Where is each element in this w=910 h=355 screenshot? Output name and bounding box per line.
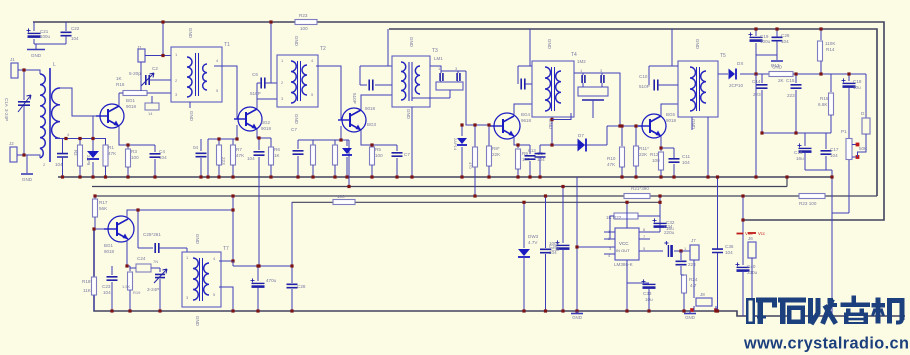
wire LM1 pin1 xyxy=(440,71,442,73)
svg-text:BG3: BG3 xyxy=(367,122,377,127)
wire BG2 bias line xyxy=(208,138,237,140)
core of antenna coil L1 xyxy=(49,68,51,162)
wire C25 left lead xyxy=(138,247,153,249)
junction R9-line xyxy=(516,143,519,146)
wire C16-C17 gnd link xyxy=(805,169,832,171)
wire C23 bottom xyxy=(111,282,113,311)
resistor R23 xyxy=(799,194,825,199)
capacitor of LM1 pin1 xyxy=(440,73,443,81)
wire C2 bottom xyxy=(140,82,142,91)
wire C12 right lead xyxy=(525,83,532,85)
wire tap to LM2 gnd xyxy=(552,113,571,120)
capacitor C11 xyxy=(669,159,680,162)
wire LM1 pin3b xyxy=(457,81,459,82)
wire C8 top link xyxy=(360,65,388,67)
junction gndcol-rail xyxy=(575,309,578,312)
watermark glyph ji leaf2 xyxy=(882,310,884,315)
wire C6 left drop xyxy=(256,83,258,99)
wire C1A bottom lead xyxy=(23,106,25,155)
wire riser into T5 xyxy=(672,65,678,67)
svg-text:1.5K: 1.5K xyxy=(122,284,131,289)
wire bottom ground rail xyxy=(94,229,905,316)
svg-text:100u: 100u xyxy=(40,34,51,39)
junction C14-133 xyxy=(760,131,763,134)
ceramic filter LM2 body xyxy=(578,87,608,96)
capacitor C40 xyxy=(737,266,750,268)
wire C36 bottom xyxy=(717,253,719,311)
svg-text:DW3: DW3 xyxy=(528,234,539,239)
wire bias-base link xyxy=(236,125,238,139)
svg-text:J1: J1 xyxy=(10,57,15,62)
resistor R7 xyxy=(231,145,236,165)
resistor R22 xyxy=(614,213,638,219)
terminal Vcc2 xyxy=(748,232,756,234)
junction R7-busA xyxy=(231,175,234,178)
junction R4-line xyxy=(217,137,220,140)
wire T2 riser xyxy=(270,22,272,83)
transformer T4 xyxy=(532,61,574,117)
resistor R2 xyxy=(78,145,83,166)
wire BG4 emitter xyxy=(514,137,530,145)
junction C3-busA xyxy=(61,175,64,178)
svg-text:BG1: BG1 xyxy=(126,98,136,103)
wire D7 line xyxy=(540,144,607,146)
capacitor C10 xyxy=(654,80,658,91)
wire R14 bottom xyxy=(820,61,822,74)
wire gnd stem topleft xyxy=(35,44,37,49)
wire R16 to T1 xyxy=(147,92,171,94)
svg-text:C34: C34 xyxy=(664,224,673,229)
wire C28 top xyxy=(291,266,293,283)
wire C18 top xyxy=(848,74,850,81)
junction C33-rail xyxy=(647,309,650,312)
svg-text:R16: R16 xyxy=(116,82,125,87)
wire R4b top xyxy=(312,140,314,145)
watermark glyph shi box hole xyxy=(792,310,801,320)
svg-text:R3: R3 xyxy=(131,149,137,154)
connector J8 xyxy=(696,298,712,306)
wire C15 top xyxy=(795,74,797,83)
wire U1 pin stub4 xyxy=(604,253,615,255)
svg-text:R23 100: R23 100 xyxy=(799,201,817,206)
junction C28-rail xyxy=(290,309,293,312)
junction R5-busA xyxy=(370,175,373,178)
junction DW3-rail xyxy=(522,309,525,312)
wire T2 pin4 to BG3 base xyxy=(316,66,346,120)
capacitor C33 xyxy=(643,283,656,285)
transistor BG1 xyxy=(100,104,124,128)
wire LM2 pin1b xyxy=(582,83,584,87)
capacitor C17 xyxy=(821,151,832,154)
wire C33 bottom xyxy=(648,289,650,311)
svg-text:100: 100 xyxy=(300,26,308,31)
junction C19col-busA xyxy=(754,175,757,178)
capacitor C22 xyxy=(61,32,72,35)
junction T7-pin4 xyxy=(231,259,234,262)
wire V+ top inner rail xyxy=(389,29,877,196)
wire ground bus A xyxy=(58,176,832,178)
wire R8a top xyxy=(334,140,336,145)
wire C3 bottom xyxy=(62,157,64,177)
svg-text:104: 104 xyxy=(71,36,79,41)
watermark glyph shou bar1 xyxy=(808,298,813,324)
wire BG6 collector xyxy=(127,210,233,218)
wire C25 right lead xyxy=(159,247,187,249)
watermark glyph kuang dash xyxy=(757,316,766,319)
wire C5b top xyxy=(258,138,260,150)
wire R18 bottom xyxy=(93,295,95,311)
svg-text:50K: 50K xyxy=(859,146,868,151)
wire BG3 emitter xyxy=(361,130,397,145)
svg-text:T4: T4 xyxy=(571,52,577,58)
svg-text:GND: GND xyxy=(695,39,700,50)
wire bead lead xyxy=(151,96,153,103)
arrow of C1B xyxy=(154,269,167,283)
junction R3-busA xyxy=(126,175,129,178)
capacitor C31 xyxy=(676,261,687,264)
wire C16 bottom xyxy=(804,153,806,170)
wire J8 left lead xyxy=(693,306,695,311)
capacitor of LM2 pin3 xyxy=(601,75,604,83)
junction R9b-busA xyxy=(487,175,490,178)
wire C10 right lead xyxy=(658,84,678,86)
watermark glyph yin box xyxy=(844,313,868,325)
connector J2 xyxy=(10,147,17,162)
svg-text:R19: R19 xyxy=(133,290,141,295)
svg-text:510P: 510P xyxy=(352,93,357,104)
wire R3 top xyxy=(127,145,129,149)
svg-text:47K: 47K xyxy=(236,153,245,158)
wire LM1 top link xyxy=(441,70,466,72)
wire U1 out xyxy=(639,250,663,252)
junction C5b-node xyxy=(257,264,260,267)
svg-text:47K: 47K xyxy=(607,162,616,167)
wire C27 top xyxy=(257,266,259,281)
wire J7 down xyxy=(693,260,695,298)
wire T7 pin5 xyxy=(219,287,233,311)
junction R6-busA xyxy=(269,175,272,178)
svg-text:R6: R6 xyxy=(274,147,280,152)
watermark glyph ji top xyxy=(887,298,905,303)
svg-text:R1: R1 xyxy=(108,145,114,150)
svg-text:R21*390: R21*390 xyxy=(631,186,649,191)
wire C7 top xyxy=(396,145,398,151)
terminal J8 left xyxy=(690,308,694,312)
wire P1 bottom xyxy=(848,160,850,213)
svg-text:LM386-K: LM386-K xyxy=(614,262,634,267)
junction C7-busA xyxy=(395,175,398,178)
svg-text:9018: 9018 xyxy=(666,118,677,123)
svg-text:R2: R2 xyxy=(73,150,78,156)
svg-text:4.7V: 4.7V xyxy=(528,240,538,245)
junction input-gndcol xyxy=(575,245,578,248)
wire D1r to P1 wiper xyxy=(858,134,867,157)
wire DX out xyxy=(740,73,769,75)
junction C4-busA xyxy=(153,175,156,178)
svg-text:223: 223 xyxy=(221,157,226,165)
svg-text:2CP10: 2CP10 xyxy=(729,83,743,88)
svg-text:C2: C2 xyxy=(152,66,158,71)
wire BG1 collector xyxy=(118,93,120,106)
wire T1 pin4 to BG2 base xyxy=(214,66,242,119)
junction C13-busA xyxy=(538,175,541,178)
junction D1-busA xyxy=(91,175,94,178)
watermark glyph yin hole2 xyxy=(849,320,864,322)
wire J2 to coil xyxy=(17,155,40,158)
svg-text:BG2: BG2 xyxy=(261,120,271,125)
wire T5 riser xyxy=(671,29,673,66)
wire C5b long drop xyxy=(258,157,260,266)
transistor BG6 xyxy=(108,216,134,242)
svg-text:C6: C6 xyxy=(252,72,258,77)
wire R24 bottom xyxy=(683,293,685,311)
resistor R1 xyxy=(103,145,108,166)
ceramic filter LM1 body xyxy=(436,82,463,90)
arrow of variable capacitor C1A xyxy=(18,95,31,112)
svg-text:T5: T5 xyxy=(720,53,726,59)
connector J7 xyxy=(690,245,699,260)
junction T1 riser top xyxy=(161,20,164,23)
watermark glyph kuang top bar xyxy=(756,298,777,303)
svg-text:D7: D7 xyxy=(578,133,584,138)
svg-text:9018: 9018 xyxy=(126,104,137,109)
wire D5 bottom xyxy=(346,157,348,177)
wire C40 column xyxy=(742,234,744,265)
junction R18-base xyxy=(92,227,95,230)
svg-text:Vcc: Vcc xyxy=(758,231,765,236)
wire D6 top xyxy=(461,125,463,136)
wire R19 top xyxy=(129,266,131,271)
junction R11-busA xyxy=(634,175,637,178)
svg-text:1M2: 1M2 xyxy=(577,59,586,64)
svg-text:10u: 10u xyxy=(853,85,861,90)
watermark glyph ji leg1 xyxy=(887,298,892,324)
wire T5 gnd stub xyxy=(691,117,693,130)
watermark glyph ji bar xyxy=(872,303,886,308)
junction J1-C1A xyxy=(22,68,25,71)
watermark glyph kuang tick xyxy=(772,303,777,308)
junction C19-rail xyxy=(754,27,757,30)
wire T1 gnd stub xyxy=(189,102,191,108)
wire BG2 emitter xyxy=(257,129,271,138)
wire T4 tap drop xyxy=(551,117,553,145)
junction J3-T1 node xyxy=(161,54,164,57)
resistor R20 xyxy=(333,200,355,205)
wire C2 right lead xyxy=(149,79,171,81)
svg-text:100u: 100u xyxy=(760,39,771,44)
wire C18 bottom xyxy=(848,88,850,139)
svg-text:6.8K: 6.8K xyxy=(818,102,828,107)
junction R12-line xyxy=(659,146,662,149)
wire LM2 out to BG5 xyxy=(608,73,620,126)
junction R10-base xyxy=(620,124,623,127)
wire L1 sec top to BG1 base xyxy=(60,88,100,116)
svg-text:C24: C24 xyxy=(137,256,146,261)
transistor BG5 xyxy=(642,114,666,138)
svg-text:GND: GND xyxy=(22,177,33,182)
svg-text:GND: GND xyxy=(31,53,42,58)
transformer T7 xyxy=(182,252,221,307)
svg-text:22K: 22K xyxy=(639,152,648,157)
wire R12 bottom xyxy=(660,170,662,177)
wire D7 riser xyxy=(606,126,608,145)
wire C24 left xyxy=(130,267,136,269)
svg-text:BG5: BG5 xyxy=(666,112,676,117)
wire LM2 tap xyxy=(592,100,594,110)
wire BG4 collector to T4 xyxy=(514,104,532,115)
junction R8-vlow xyxy=(473,194,476,197)
ground bar bottom2 xyxy=(684,313,696,315)
wire C13 top xyxy=(539,145,541,154)
resistor R16 1K xyxy=(123,91,147,96)
component D1 right xyxy=(862,118,870,134)
wire U1 vcc pin xyxy=(626,202,628,228)
wire R11 bottom xyxy=(635,166,637,177)
wire C11 top xyxy=(673,148,675,158)
resistor R14 xyxy=(818,41,823,61)
wire BG6 base line xyxy=(94,228,108,230)
connector J9 xyxy=(748,242,756,258)
wire bias left drop xyxy=(207,139,209,177)
wire C21 top lead xyxy=(33,22,35,31)
wire J9 down xyxy=(751,258,753,316)
junction C36-busA xyxy=(716,175,719,178)
svg-text:GND: GND xyxy=(189,111,194,122)
svg-text:J7: J7 xyxy=(691,238,696,243)
wire C5 bottom xyxy=(200,158,202,177)
wire R5 bottom xyxy=(371,165,373,177)
capacitor C21 xyxy=(28,32,41,34)
junction R12-busA xyxy=(659,175,662,178)
watermark glyph ji leg2 xyxy=(900,303,905,320)
terminal Vcc xyxy=(737,233,744,235)
wire gnd stub bottom2 xyxy=(689,311,691,313)
wire bias-base BG3 xyxy=(340,126,342,140)
wire R15 top xyxy=(830,74,832,92)
capacitor C7a xyxy=(293,151,304,154)
wire R2 top xyxy=(79,139,81,146)
wire V+ drop to U1 xyxy=(659,196,661,232)
connector J1 xyxy=(11,63,18,78)
svg-text:223: 223 xyxy=(787,93,795,98)
wire C17 bottom xyxy=(825,156,827,170)
potentiometer P1 xyxy=(846,139,852,160)
junction R8a-busA xyxy=(333,175,336,178)
capacitor C25 xyxy=(155,243,159,253)
svg-text:100: 100 xyxy=(131,155,139,160)
junction U1gnd-rail xyxy=(625,309,628,312)
capacitor C6 xyxy=(261,78,265,89)
capacitor C27 xyxy=(252,282,265,284)
wire R7 bottom xyxy=(232,165,234,177)
wire BG6 emitter xyxy=(127,240,130,266)
junction C31-node xyxy=(679,249,682,252)
svg-text:R18*: R18* xyxy=(82,279,92,284)
resistor R15 xyxy=(829,93,834,115)
wire U1 gnd down xyxy=(626,283,628,311)
wire C29 top xyxy=(545,196,547,248)
wire C9 top xyxy=(529,145,531,154)
terminal P1 a xyxy=(856,143,860,147)
junction R14-node xyxy=(819,72,822,75)
svg-text:1K: 1K xyxy=(116,76,123,81)
watermark glyph yin hole1 xyxy=(849,316,864,318)
svg-text:470u: 470u xyxy=(266,278,277,283)
wire C3 top xyxy=(62,139,64,154)
junction T2 riser top xyxy=(269,20,272,23)
junction R5-line xyxy=(370,143,373,146)
junction R1-busA xyxy=(104,175,107,178)
svg-text:56K: 56K xyxy=(99,206,108,211)
wire J3 bottom to C2 xyxy=(140,62,142,82)
inductor L1 primary xyxy=(40,74,45,158)
resistor R6 xyxy=(269,147,274,165)
junction coil-bias xyxy=(64,137,67,140)
svg-text:C23: C23 xyxy=(102,284,111,289)
svg-text:2AP14: 2AP14 xyxy=(453,138,458,151)
capacitor C26 xyxy=(772,37,783,40)
junction C30-rail xyxy=(561,309,564,312)
junction C9-busA xyxy=(528,175,531,178)
watermark glyph shou tick right xyxy=(832,303,838,307)
svg-text:1K: 1K xyxy=(274,153,281,158)
svg-text:14: 14 xyxy=(148,111,153,116)
svg-text:C16: C16 xyxy=(794,150,803,155)
junction C27-rail xyxy=(256,309,259,312)
wire T3 riser xyxy=(387,29,389,66)
wire R22 loop right xyxy=(638,215,660,217)
svg-text:L: L xyxy=(53,62,56,68)
wire R7 top xyxy=(232,139,234,145)
capacitor C28 xyxy=(287,284,298,287)
watermark glyph kuang bar outer xyxy=(746,298,755,324)
svg-text:C11: C11 xyxy=(682,154,691,159)
junction C18-node xyxy=(847,72,850,75)
wire LM1 out to BG4 base xyxy=(466,71,490,125)
wire J3 to riser xyxy=(145,55,171,57)
svg-text:T7: T7 xyxy=(223,246,229,252)
wire BG1 bias node xyxy=(55,138,106,140)
junction tap-119 xyxy=(550,118,553,121)
junction R4-busA xyxy=(217,175,220,178)
wire C4 top xyxy=(154,145,156,152)
capacitor C30 xyxy=(557,244,570,246)
junction T7 pin5-rail xyxy=(231,309,234,312)
watermark glyph ji vert xyxy=(876,298,881,324)
wire T4 riser xyxy=(529,29,531,66)
wire V+ top outer rail xyxy=(33,22,884,220)
svg-text:C14: C14 xyxy=(752,79,761,84)
junction R11-base xyxy=(634,124,637,127)
svg-text:C1A: C1A xyxy=(4,98,9,107)
svg-text:C40: C40 xyxy=(747,264,756,269)
junction Vlow-660 xyxy=(658,201,661,204)
junction V+mid-T7 xyxy=(231,194,234,197)
junction U1-vcc xyxy=(625,201,628,204)
junction R14-rail xyxy=(819,27,822,30)
wire J2 gnd stub xyxy=(26,155,28,173)
svg-text:47K: 47K xyxy=(108,151,117,156)
wire C16 top xyxy=(804,133,806,146)
wire C21 bottom lead xyxy=(33,39,35,44)
capacitor C18 xyxy=(843,82,856,84)
resistor R24 xyxy=(682,275,687,293)
svg-text:7N: 7N xyxy=(153,259,158,264)
svg-text:IN OUT: IN OUT xyxy=(616,248,630,253)
capacitor C3 xyxy=(57,154,68,157)
wire R8a bottom xyxy=(334,165,336,177)
svg-text:C18: C18 xyxy=(853,79,862,84)
